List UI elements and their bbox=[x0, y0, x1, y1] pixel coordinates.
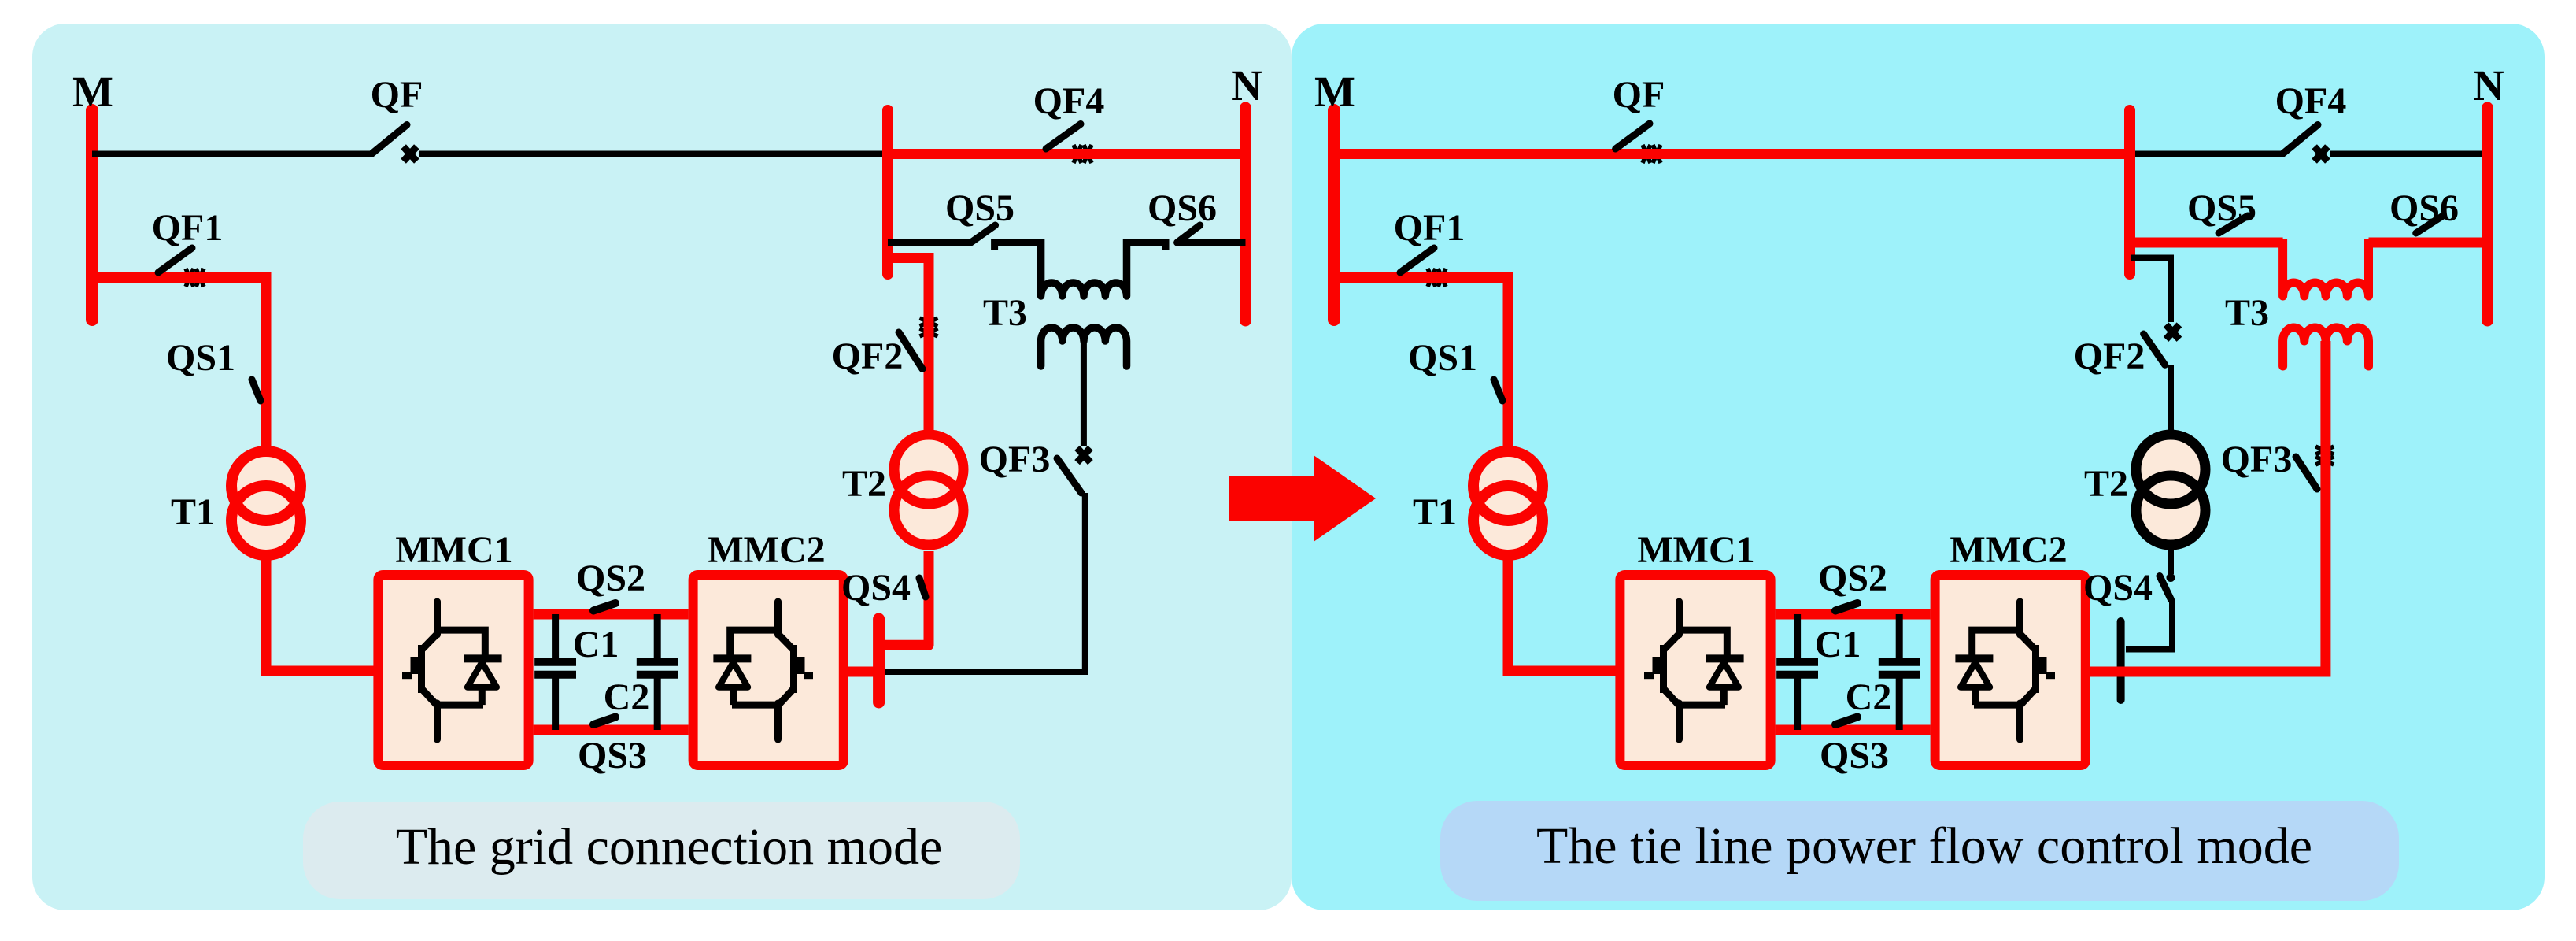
bus N bbox=[2482, 108, 2493, 320]
capacitor C1 bbox=[534, 614, 576, 730]
svg-text:MMC2: MMC2 bbox=[708, 529, 825, 571]
converter MMC2 box bbox=[1935, 575, 2086, 765]
svg-text:QF3: QF3 bbox=[2221, 439, 2293, 480]
DC wire positive bbox=[1776, 609, 1931, 620]
wire junction stub to T3 and bus N (QS5/QS6 line) bbox=[2130, 238, 2488, 248]
svg-text:QS2: QS2 bbox=[576, 558, 645, 599]
capacitor C2 bbox=[637, 614, 678, 730]
svg-text:The grid connection mode: The grid connection mode bbox=[396, 818, 943, 876]
svg-text:T3: T3 bbox=[983, 292, 1027, 334]
bus M bbox=[86, 110, 98, 320]
disconnector QS4 blade (open) bbox=[2160, 576, 2171, 600]
wire T3 down to QF3 bbox=[1081, 341, 1087, 446]
breaker QF blade bbox=[1616, 124, 1650, 149]
breaker QF1 blade bbox=[1400, 248, 1434, 272]
transformer T1 bbox=[231, 451, 301, 555]
svg-text:QS4: QS4 bbox=[2083, 567, 2153, 609]
breaker QF4 (closed) x-marks bbox=[1074, 145, 1092, 163]
wire T1 to MMC1 bbox=[266, 551, 375, 671]
wire stub to T2 bbox=[888, 258, 929, 439]
junction node bar bbox=[882, 110, 893, 274]
wire junction to breaker QF4 bbox=[2130, 151, 2282, 157]
bus N bbox=[1240, 108, 1251, 320]
wire QF2 to T2 bbox=[2168, 365, 2174, 435]
capacitor C1 bbox=[1776, 614, 1818, 730]
svg-text:QF2: QF2 bbox=[2074, 335, 2145, 377]
svg-text:N: N bbox=[2473, 61, 2504, 109]
panel background (grid connection mode) bbox=[32, 24, 1292, 910]
wire junction stub to QS5 bbox=[888, 239, 971, 246]
QS4 contact bar bbox=[2117, 621, 2125, 700]
svg-text:MMC2: MMC2 bbox=[1950, 529, 2067, 571]
svg-text:M: M bbox=[72, 68, 113, 116]
wire T3 via QF3 to MMC2 bbox=[2086, 341, 2326, 672]
svg-text:C2: C2 bbox=[1846, 676, 1892, 718]
wire junction to bus N bbox=[888, 149, 1246, 159]
MMC2 IGBT symbol bbox=[713, 602, 813, 739]
disconnector QS6 blade bbox=[1177, 225, 1200, 243]
wire T2 down to QS4 contact bbox=[2168, 546, 2174, 574]
DC wire negative bbox=[534, 725, 689, 735]
wire M to QF1 corner, down to T1 bbox=[1334, 278, 1508, 452]
svg-text:QF1: QF1 bbox=[1394, 207, 1465, 249]
wire T1 to MMC1 bbox=[1508, 551, 1617, 671]
wire QS4 to contact bar bbox=[2126, 600, 2172, 650]
MMC2 IGBT symbol bbox=[1955, 602, 2055, 739]
svg-text:T1: T1 bbox=[1413, 491, 1457, 533]
transformer T2 bbox=[894, 435, 963, 545]
svg-text:C2: C2 bbox=[604, 676, 650, 718]
transformer T3 primary winding bbox=[1041, 239, 1127, 296]
svg-text:QF: QF bbox=[371, 74, 423, 116]
wire QF to junction bbox=[419, 151, 888, 157]
svg-text:QF: QF bbox=[1613, 74, 1665, 116]
svg-text:QF4: QF4 bbox=[2275, 80, 2347, 122]
wire M to QF1 corner, down to T1 bbox=[92, 278, 266, 452]
disconnector QS4 blade bbox=[919, 578, 926, 597]
svg-text:QF3: QF3 bbox=[979, 439, 1051, 480]
wire QS5 to T3 bbox=[995, 239, 1041, 246]
breaker QF2 (closed) x-marks bbox=[920, 318, 938, 336]
svg-text:QS3: QS3 bbox=[578, 735, 647, 776]
svg-text:T2: T2 bbox=[2084, 463, 2128, 505]
wire M to junction bbox=[1334, 149, 2130, 159]
svg-text:T1: T1 bbox=[171, 491, 215, 533]
disconnector QS5 blade bbox=[2219, 216, 2248, 233]
svg-text:C1: C1 bbox=[573, 624, 619, 665]
QS6 fixed contact tick bbox=[1162, 239, 1170, 250]
svg-text:QF4: QF4 bbox=[1033, 80, 1105, 122]
svg-text:C1: C1 bbox=[1815, 624, 1861, 665]
converter MMC1 box bbox=[1620, 575, 1770, 765]
svg-text:QS5: QS5 bbox=[945, 187, 1015, 229]
svg-text:QS6: QS6 bbox=[1148, 187, 1217, 229]
caption box: the tie line power flow control mode bbox=[1440, 801, 2399, 901]
svg-text:MMC1: MMC1 bbox=[395, 529, 512, 571]
breaker QF blade bbox=[371, 125, 407, 154]
DC wire negative bbox=[1776, 725, 1931, 735]
svg-text:N: N bbox=[1231, 61, 1262, 109]
wire QS4 bar to T2 bbox=[879, 551, 929, 645]
breaker QF4 blade bbox=[1046, 124, 1081, 150]
svg-text:QS1: QS1 bbox=[166, 337, 235, 379]
svg-text:M: M bbox=[1314, 68, 1355, 116]
disconnector QS2 blade bbox=[593, 603, 615, 611]
svg-text:T2: T2 bbox=[842, 463, 886, 505]
svg-text:The tie line power flow contro: The tie line power flow control mode bbox=[1536, 817, 2312, 875]
breaker QF1 (closed) x-marks bbox=[1428, 269, 1446, 287]
svg-text:QS3: QS3 bbox=[1820, 735, 1889, 776]
svg-text:MMC1: MMC1 bbox=[1637, 529, 1754, 571]
svg-text:QS2: QS2 bbox=[1818, 558, 1887, 599]
svg-text:QS6: QS6 bbox=[2389, 187, 2459, 229]
transformer T2 bbox=[2136, 435, 2205, 545]
disconnector QS2 blade bbox=[1835, 603, 1857, 611]
breaker QF2 x-mark bbox=[2166, 324, 2179, 339]
transformer T1 bbox=[1473, 451, 1543, 555]
breaker QF3 blade bbox=[2296, 457, 2317, 489]
breaker QF4 blade bbox=[2282, 125, 2318, 154]
wire QF3 to QS4 bar bbox=[885, 493, 1085, 672]
svg-text:QF2: QF2 bbox=[832, 335, 904, 377]
bus M bbox=[1328, 110, 1340, 320]
wire M to breaker QF bbox=[92, 151, 371, 157]
breaker QF3 (closed) x-marks bbox=[2315, 446, 2334, 465]
wire QS6 to bus N bbox=[1177, 239, 1246, 246]
mode transition arrow bbox=[1229, 455, 1376, 542]
breaker QF2 blade bbox=[2144, 334, 2165, 365]
capacitor C2 bbox=[1879, 614, 1920, 730]
transformer T3 secondary winding bbox=[2283, 328, 2369, 366]
junction node bar bbox=[2124, 110, 2135, 274]
breaker QF x-mark bbox=[404, 146, 417, 161]
wire MMC2 to QS4 bar bbox=[844, 667, 878, 677]
breaker QF1 blade bbox=[158, 248, 192, 272]
panel background (tie line power flow control mode) bbox=[1292, 24, 2545, 910]
breaker QF3 blade bbox=[1057, 458, 1081, 493]
DC wire positive bbox=[534, 609, 689, 620]
svg-text:T3: T3 bbox=[2225, 292, 2269, 334]
breaker QF (closed) x-marks bbox=[1643, 145, 1661, 163]
transformer T3 secondary winding bbox=[1041, 328, 1127, 366]
disconnector QS5 blade bbox=[971, 225, 996, 243]
caption box: the grid connection mode bbox=[303, 802, 1020, 899]
MMC1 IGBT symbol bbox=[1644, 602, 1744, 739]
svg-text:QS4: QS4 bbox=[841, 567, 911, 609]
converter MMC1 box bbox=[378, 575, 528, 765]
MMC1 IGBT symbol bbox=[402, 602, 502, 739]
svg-text:QS1: QS1 bbox=[1408, 337, 1477, 379]
wire T3 to QS6 bbox=[1127, 239, 1166, 246]
wire QF4 to bus N bbox=[2330, 151, 2488, 157]
wire stub to QF2 bbox=[2131, 258, 2171, 323]
disconnector QS1 blade bbox=[1494, 380, 1502, 401]
breaker QF1 (closed) x-marks bbox=[186, 269, 204, 287]
converter MMC2 box bbox=[693, 575, 844, 765]
svg-text:QS5: QS5 bbox=[2187, 187, 2256, 229]
breaker QF2 blade bbox=[899, 332, 922, 369]
disconnector QS3 blade bbox=[593, 717, 615, 725]
QS5 fixed contact tick bbox=[991, 239, 998, 250]
disconnector QS6 blade bbox=[2416, 216, 2443, 233]
breaker QF4 x-mark bbox=[2315, 146, 2328, 161]
breaker QF3 x-mark bbox=[1077, 448, 1091, 462]
disconnector QS3 blade bbox=[1835, 717, 1857, 725]
disconnector QS1 blade bbox=[252, 380, 261, 401]
QS4 contact bar bbox=[873, 619, 885, 702]
transformer T3 primary winding bbox=[2283, 239, 2369, 296]
svg-text:QF1: QF1 bbox=[152, 207, 224, 249]
